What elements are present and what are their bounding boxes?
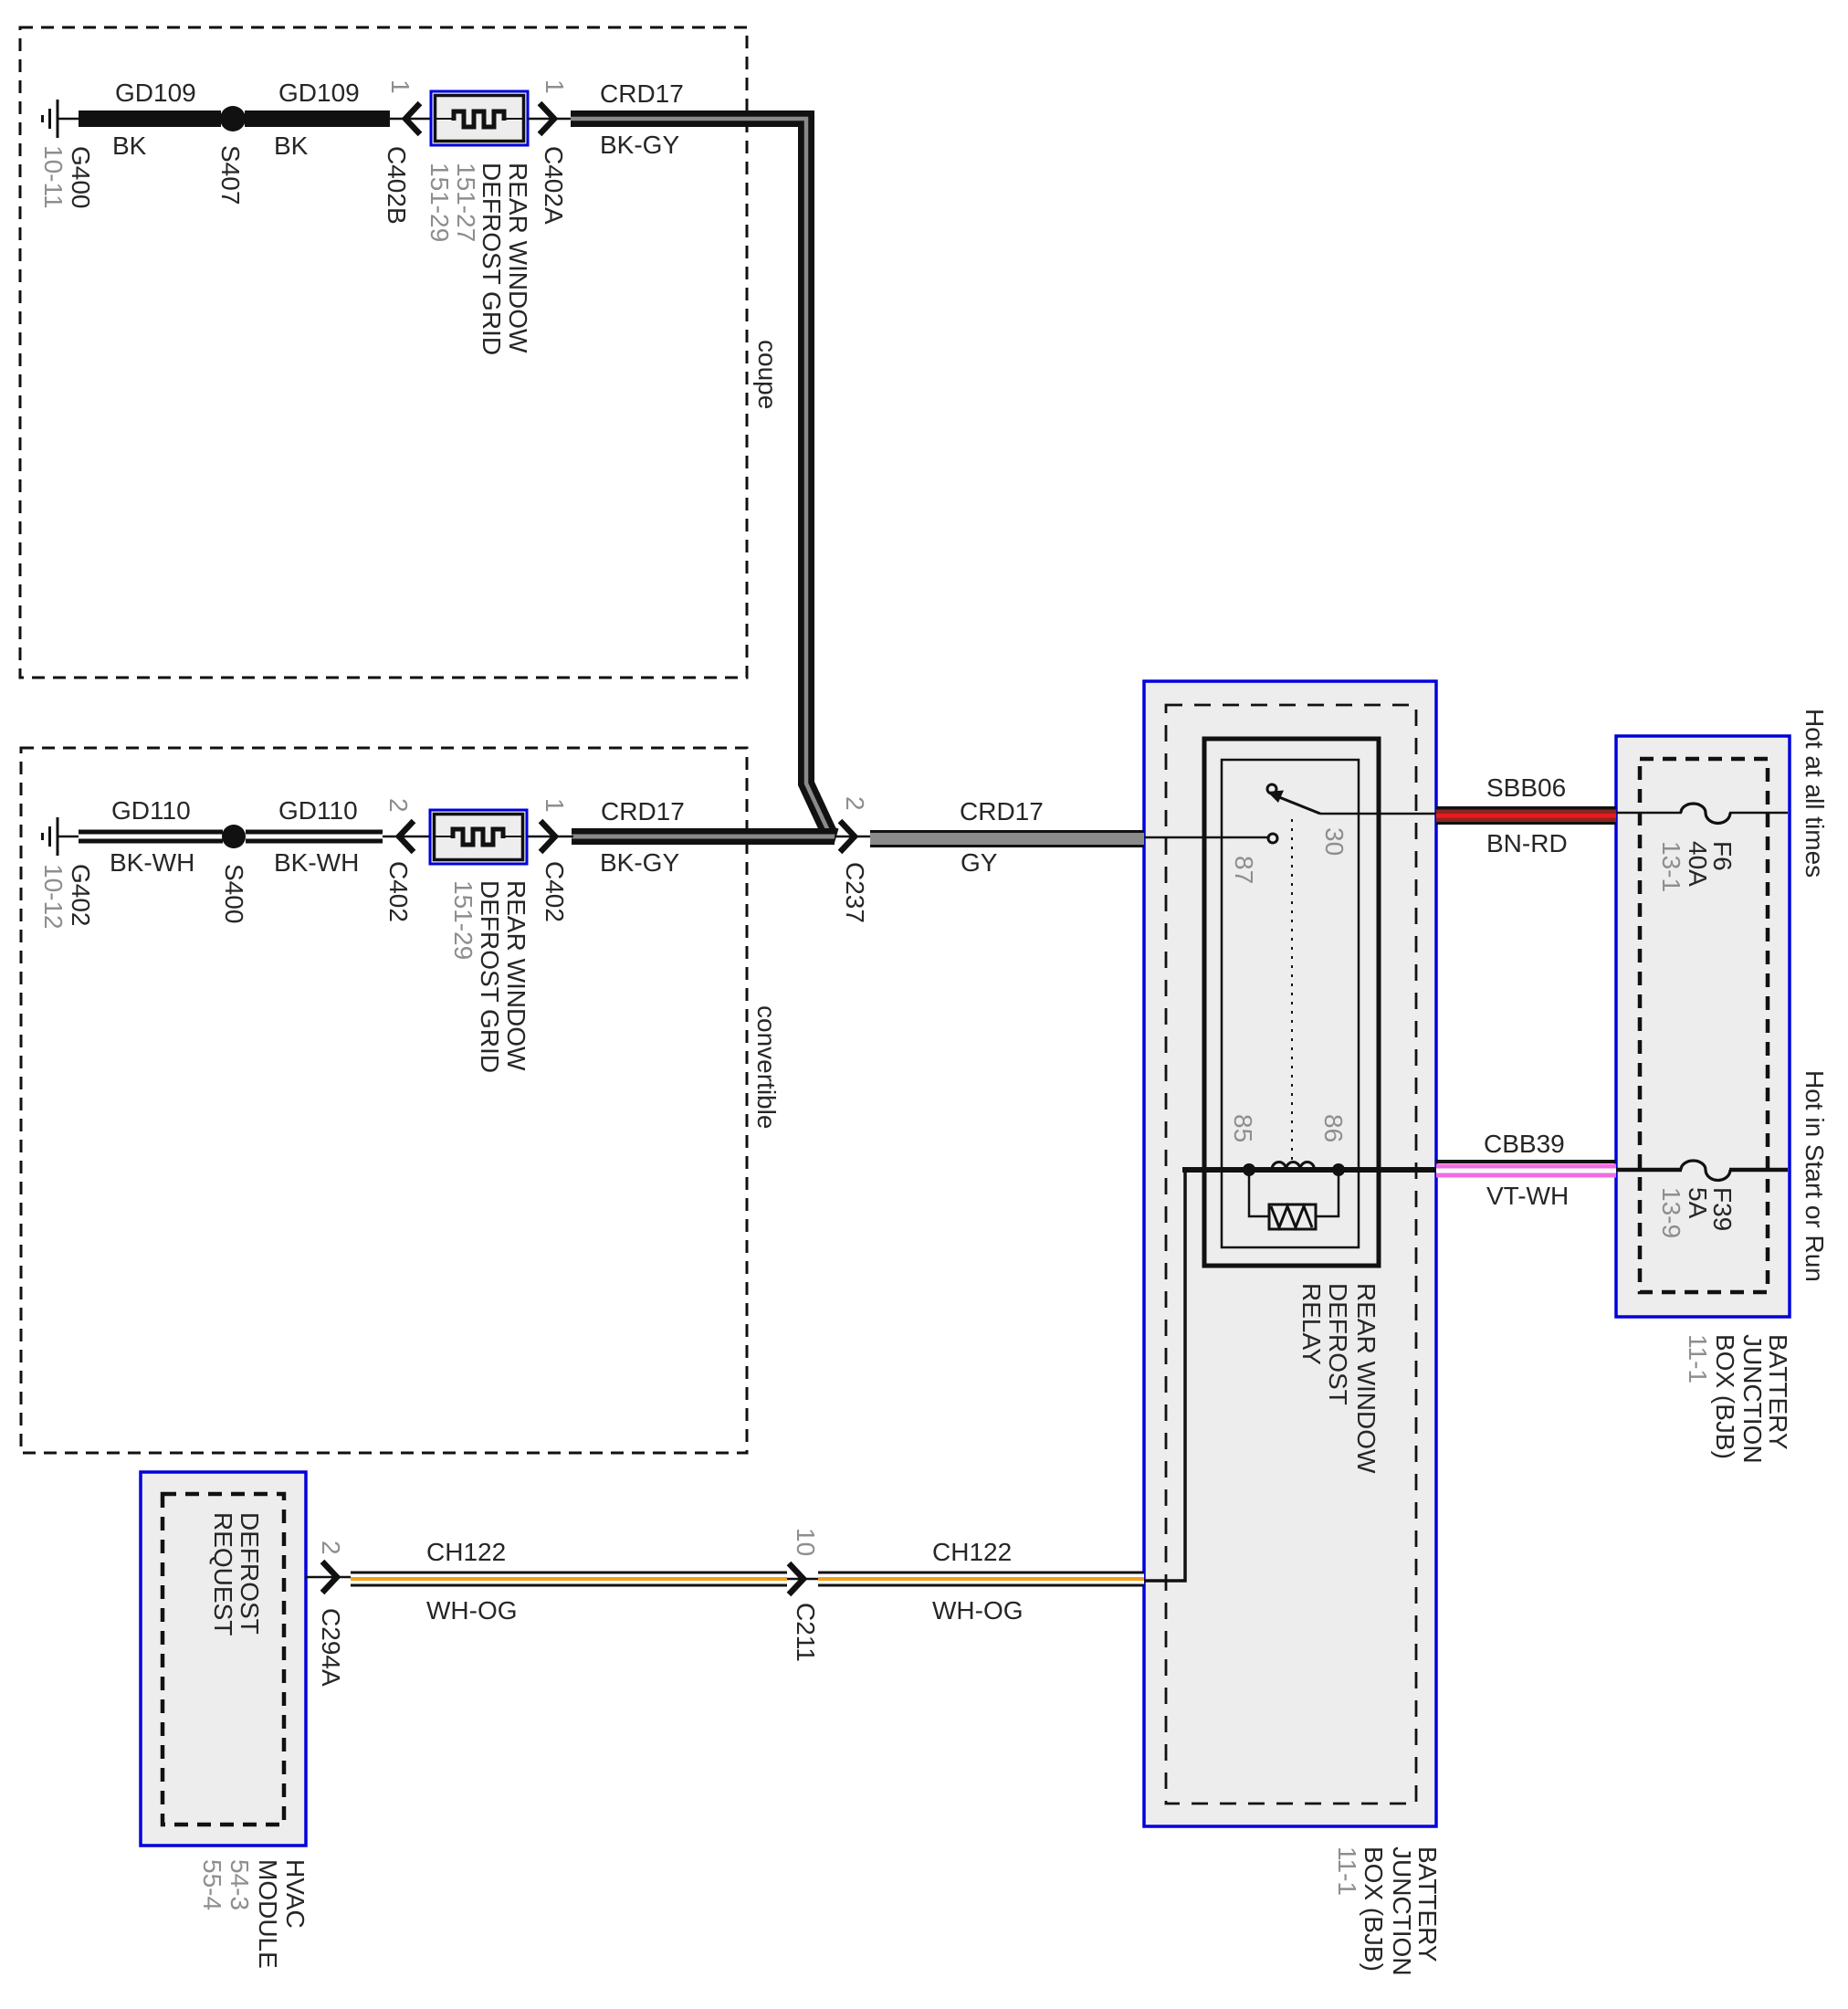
svg-text:GD110: GD110 — [278, 796, 358, 825]
svg-text:Hot at all times: Hot at all times — [1801, 709, 1829, 878]
svg-text:VT-WH: VT-WH — [1486, 1182, 1569, 1210]
svg-text:10: 10 — [792, 1528, 820, 1556]
wire CRD17 BK-GY (convertible) — [572, 828, 835, 845]
wire CH122 WH-OG segment 2 — [818, 1572, 1144, 1587]
svg-text:10-12: 10-12 — [39, 864, 68, 930]
svg-text:54-3: 54-3 — [226, 1859, 254, 1910]
connector C402A arrow — [540, 103, 554, 134]
wire through connector C402A — [528, 118, 572, 121]
svg-text:GD110: GD110 — [111, 796, 191, 825]
wire GD110 BK-WH segment 1 — [79, 830, 223, 844]
svg-text:CH122: CH122 — [932, 1538, 1012, 1566]
svg-text:C402B: C402B — [383, 146, 411, 225]
svg-text:BK-WH: BK-WH — [274, 848, 359, 877]
relay pin 86 junction — [1332, 1163, 1345, 1176]
connector C402 arrow (right) — [541, 821, 555, 852]
splice S400 — [222, 825, 246, 848]
svg-text:RELAY: RELAY — [1297, 1283, 1326, 1365]
svg-text:5A: 5A — [1684, 1187, 1712, 1219]
svg-text:MODULE: MODULE — [254, 1859, 282, 1969]
svg-text:BATTERY: BATTERY — [1764, 1334, 1792, 1450]
wire SBB06 BN-RD — [1436, 806, 1616, 825]
svg-text:DEFROST GRID: DEFROST GRID — [476, 880, 504, 1073]
svg-text:87: 87 — [1230, 856, 1258, 884]
svg-text:JUNCTION: JUNCTION — [1738, 1334, 1767, 1464]
rear window defrost grid (convertible) component box — [430, 810, 527, 864]
svg-text:55-4: 55-4 — [198, 1859, 226, 1910]
wire through connector C402 (right) — [527, 836, 573, 838]
ground G400 — [43, 100, 81, 138]
battery junction box BJB1 — [1144, 681, 1436, 1826]
fuse F39 wire — [1616, 1168, 1682, 1173]
svg-text:C402A: C402A — [540, 146, 568, 225]
svg-text:WH-OG: WH-OG — [932, 1596, 1024, 1625]
grid element symbol (convertible) — [434, 836, 453, 837]
relay pin 85 junction — [1243, 1163, 1255, 1176]
relay coil wire (to CBB39) — [1182, 1167, 1436, 1173]
svg-text:Hot in Start or Run: Hot in Start or Run — [1801, 1070, 1829, 1282]
wire through connector C402 (left) — [383, 836, 430, 838]
svg-text:HVAC: HVAC — [281, 1859, 310, 1929]
svg-text:BOX (BJB): BOX (BJB) — [1360, 1846, 1388, 1972]
wire GD110 BK-WH segment 2 — [246, 830, 383, 844]
svg-text:SBB06: SBB06 — [1486, 773, 1566, 802]
HVAC module U3 box — [141, 1472, 306, 1846]
svg-text:BK-GY: BK-GY — [600, 848, 679, 877]
svg-text:40A: 40A — [1684, 841, 1712, 887]
fuse F39 — [1681, 1161, 1730, 1181]
battery junction box BJB2 (fuse box) — [1616, 736, 1790, 1317]
relay suppression resistor — [1269, 1204, 1316, 1229]
svg-text:151-29: 151-29 — [425, 163, 454, 242]
connector C211 arrow — [789, 1563, 803, 1594]
svg-text:BK: BK — [274, 131, 309, 160]
svg-text:CBB39: CBB39 — [1484, 1130, 1565, 1158]
svg-text:REAR WINDOW: REAR WINDOW — [504, 163, 532, 353]
coupe harness dashed box — [20, 27, 747, 678]
svg-text:S407: S407 — [216, 145, 245, 205]
connector C402 arrow (left) — [399, 821, 414, 852]
wire GD109 BK segment 1 — [79, 110, 221, 127]
convertible harness dashed box — [21, 748, 747, 1453]
svg-text:10-11: 10-11 — [39, 145, 68, 209]
CH122 riser wire inside BJB1 — [1144, 1170, 1185, 1581]
wire through connector C237 — [835, 836, 872, 838]
svg-text:1: 1 — [541, 79, 569, 94]
relay switch contact pin 87 — [1268, 834, 1277, 843]
svg-text:2: 2 — [384, 798, 413, 813]
relay coil — [1272, 1162, 1315, 1169]
relay K1 outer case — [1204, 739, 1379, 1266]
wire CRD17 GY — [870, 830, 1144, 847]
svg-text:convertible: convertible — [752, 1005, 781, 1129]
svg-text:151-29: 151-29 — [449, 880, 478, 960]
relay switch dotted link — [1291, 819, 1293, 1161]
fuse F6 — [1681, 804, 1730, 824]
svg-text:13-1: 13-1 — [1657, 841, 1685, 892]
HVAC module inner dashed box — [163, 1494, 284, 1825]
grid element symbol (coupe) — [435, 118, 454, 120]
relay suppression resistor leads — [1249, 1173, 1269, 1216]
svg-text:S400: S400 — [220, 864, 248, 923]
svg-text:13-9: 13-9 — [1657, 1187, 1685, 1238]
BJB1 inner dashed box — [1166, 705, 1416, 1804]
svg-text:BK-WH: BK-WH — [110, 848, 194, 877]
svg-text:coupe: coupe — [753, 340, 782, 409]
svg-text:BOX (BJB): BOX (BJB) — [1711, 1334, 1739, 1459]
svg-text:86: 86 — [1319, 1114, 1348, 1142]
svg-text:GD109: GD109 — [115, 79, 196, 107]
svg-text:GY: GY — [961, 848, 998, 877]
svg-text:DEFROST: DEFROST — [236, 1512, 264, 1635]
relay switch contact pin 30 — [1267, 784, 1276, 794]
svg-text:G400: G400 — [67, 146, 95, 209]
wire through connector C211 — [787, 1578, 820, 1581]
svg-text:85: 85 — [1229, 1114, 1257, 1142]
svg-text:G402: G402 — [67, 864, 95, 927]
svg-text:11-1: 11-1 — [1333, 1846, 1361, 1896]
svg-text:REAR WINDOW: REAR WINDOW — [1352, 1283, 1381, 1474]
svg-text:DEFROST GRID: DEFROST GRID — [478, 163, 506, 355]
connector C237 arrow — [840, 821, 855, 852]
svg-text:CRD17: CRD17 — [600, 79, 684, 108]
wire CRD17 BK-GY (coupe) with corner down to C237 — [571, 119, 836, 836]
svg-text:C402: C402 — [384, 861, 413, 922]
svg-text:REAR WINDOW: REAR WINDOW — [502, 880, 530, 1071]
svg-text:1: 1 — [541, 798, 569, 813]
rear window defrost grid (coupe) component box — [431, 91, 528, 145]
wire CBB39 VT-WH — [1436, 1160, 1616, 1163]
svg-text:C211: C211 — [792, 1603, 820, 1662]
svg-text:DEFROST: DEFROST — [1324, 1283, 1352, 1405]
svg-text:2: 2 — [317, 1541, 345, 1555]
svg-text:BATTERY: BATTERY — [1413, 1846, 1442, 1962]
HVAC output wire — [306, 1576, 352, 1579]
connector C402B arrow — [405, 103, 420, 134]
svg-text:WH-OG: WH-OG — [426, 1596, 518, 1625]
ground G402 — [43, 817, 81, 856]
svg-text:30: 30 — [1320, 827, 1349, 856]
wire CH122 WH-OG segment 1 — [351, 1572, 787, 1587]
svg-text:151-27: 151-27 — [452, 163, 480, 242]
wire through connector C402B — [390, 118, 431, 121]
relay K1 inner case — [1222, 760, 1359, 1247]
wire GD109 BK segment 2 — [245, 110, 390, 127]
svg-text:1: 1 — [386, 79, 415, 94]
svg-text:CRD17: CRD17 — [601, 797, 685, 826]
svg-text:C294A: C294A — [317, 1608, 345, 1687]
svg-text:BN-RD: BN-RD — [1486, 829, 1568, 857]
BJB2 inner dashed box — [1640, 759, 1768, 1292]
svg-text:C237: C237 — [841, 862, 869, 923]
connector C294A arrow — [322, 1562, 337, 1593]
splice S407 — [220, 106, 246, 131]
svg-text:JUNCTION: JUNCTION — [1388, 1846, 1416, 1976]
relay pin 30 wire — [1320, 813, 1436, 815]
svg-text:CRD17: CRD17 — [960, 797, 1044, 826]
relay pin 87 wire — [1144, 836, 1267, 839]
svg-text:11-1: 11-1 — [1684, 1334, 1712, 1383]
svg-text:CH122: CH122 — [426, 1538, 506, 1566]
svg-text:BK-GY: BK-GY — [600, 131, 679, 159]
svg-text:C402: C402 — [541, 861, 569, 922]
svg-text:2: 2 — [841, 796, 869, 811]
svg-text:BK: BK — [112, 131, 147, 160]
svg-text:REQUEST: REQUEST — [209, 1512, 237, 1636]
svg-text:GD109: GD109 — [278, 79, 360, 107]
relay switch armature — [1275, 795, 1320, 814]
fuse F6 wire — [1616, 812, 1682, 815]
